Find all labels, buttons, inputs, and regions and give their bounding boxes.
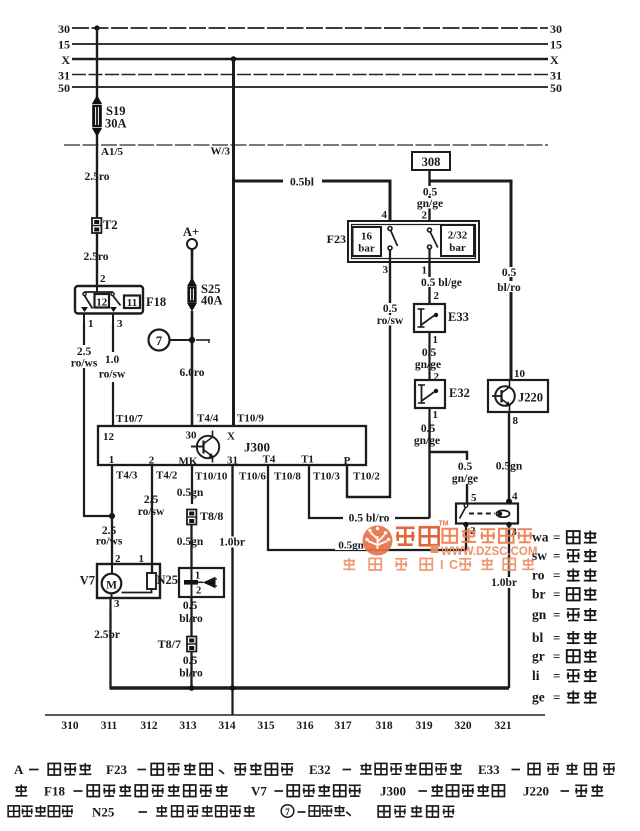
svg-text:2.5br: 2.5br — [94, 629, 120, 641]
svg-text:ro/sw: ro/sw — [377, 315, 404, 327]
svg-text:30A: 30A — [105, 117, 127, 131]
svg-text:40A: 40A — [201, 294, 223, 308]
svg-text:314: 314 — [218, 720, 236, 732]
svg-text:ro/sw: ro/sw — [138, 506, 165, 518]
svg-text:T10/10: T10/10 — [195, 471, 228, 483]
svg-text:5: 5 — [471, 492, 477, 504]
svg-text:bl/ro: bl/ro — [497, 282, 521, 294]
svg-text:30: 30 — [58, 22, 70, 36]
wire J300 T4 to relay pin2 — [268, 465, 466, 550]
bus line 30 — [72, 27, 548, 29]
wire 0.5 ro/sw F23 pin3 to J300 P — [347, 262, 390, 497]
wire F18 pin3 to J300 T10/7 — [112, 323, 114, 426]
AC clutch N25 — [179, 568, 224, 597]
svg-text:1: 1 — [109, 454, 115, 466]
svg-text:1.0br: 1.0br — [219, 537, 245, 549]
wire label 0.5 gn/ge — [417, 186, 443, 196]
svg-text:J220: J220 — [523, 784, 549, 799]
svg-text:bar: bar — [358, 243, 375, 255]
svg-text:X: X — [61, 53, 70, 67]
svg-text:2: 2 — [434, 371, 440, 383]
svg-text:1.0: 1.0 — [105, 354, 120, 366]
wire J220 pin8 to relay pin4 — [508, 412, 510, 503]
F18 pin 1 stub — [83, 314, 85, 323]
svg-text:2.5: 2.5 — [77, 346, 92, 358]
fuse S19 30A — [93, 96, 101, 104]
svg-text:0.5gn: 0.5gn — [177, 536, 204, 548]
wire splice7 to junction — [170, 339, 190, 341]
wire T8/8 to N25 — [190, 525, 192, 569]
svg-text:316: 316 — [296, 720, 314, 732]
bus line X — [72, 58, 548, 61]
V7 series resistor — [147, 573, 156, 589]
ground tick to track rail — [231, 688, 233, 715]
svg-text:2: 2 — [196, 586, 201, 597]
svg-text:T10/3: T10/3 — [313, 471, 340, 483]
svg-text:ge: ge — [532, 690, 545, 705]
F18 contact box 11 — [124, 296, 140, 309]
svg-text:7: 7 — [156, 334, 162, 348]
wire A+ to fuse S25 — [191, 249, 194, 281]
svg-text:gn/ge: gn/ge — [452, 473, 478, 485]
F23 right contact pair — [428, 228, 432, 232]
svg-text:0.5bl: 0.5bl — [290, 177, 314, 189]
svg-text:T4: T4 — [263, 454, 276, 466]
svg-text:bl/ro: bl/ro — [179, 668, 203, 680]
F18 pin 3 stub — [112, 314, 114, 323]
svg-text:2.5: 2.5 — [144, 494, 159, 506]
F23 pin1 stub — [428, 249, 430, 262]
svg-text:I C: I C — [440, 558, 459, 572]
F23 chamber 2/32 bar — [441, 225, 474, 256]
svg-text:12: 12 — [103, 431, 115, 443]
connector T2 — [92, 218, 101, 233]
svg-text:T1: T1 — [301, 454, 314, 466]
watermark url — [431, 545, 439, 553]
svg-text:F18: F18 — [44, 784, 65, 799]
svg-text:T10/7: T10/7 — [116, 413, 143, 425]
svg-text:F23: F23 — [106, 762, 127, 777]
radiator fan motor V7 — [97, 564, 160, 598]
svg-text:2/32: 2/32 — [448, 230, 468, 242]
F23 pin3 stub — [389, 250, 391, 262]
svg-text:F23: F23 — [327, 232, 346, 246]
wire label 0.5 gn/ge — [418, 347, 441, 357]
svg-text:E33: E33 — [478, 762, 500, 777]
svg-text:ro/sw: ro/sw — [99, 369, 126, 381]
wire E32 down to T1 horizontal — [428, 420, 430, 518]
svg-text:2.5ro: 2.5ro — [84, 171, 109, 183]
watermark logo circle — [343, 521, 537, 573]
F18 left switch blade — [83, 292, 86, 295]
svg-text:gr: gr — [532, 649, 545, 664]
relay bottom contacts — [463, 522, 468, 527]
svg-text:0.5gn: 0.5gn — [338, 540, 363, 552]
svg-text:317: 317 — [334, 720, 352, 732]
temperature switch E32 — [415, 380, 445, 408]
svg-text:=: = — [553, 548, 560, 563]
svg-text:30: 30 — [186, 430, 198, 442]
svg-text:0.5 bl/ge: 0.5 bl/ge — [421, 277, 462, 289]
wire label 0.5 gn/ge — [417, 423, 440, 433]
svg-text:=: = — [553, 530, 560, 545]
caption line 2 — [15, 784, 27, 796]
wire J300 T4/2 to V7 pin1 2.5 ro/sw — [151, 465, 153, 573]
wire 308 tee right to bl/ro column — [430, 181, 512, 380]
wire F23 pin1 to E33 — [428, 262, 430, 304]
wire T2 to F18 pin2 — [96, 233, 98, 286]
wire J300 MK to T8/8 — [191, 465, 193, 504]
svg-text:T4/3: T4/3 — [116, 470, 138, 482]
connector rail A1/5 W/3 — [64, 144, 548, 146]
svg-text:V7: V7 — [251, 784, 267, 799]
svg-text:X: X — [227, 431, 235, 443]
wire J300 T4/3 to V7 pin2 — [111, 465, 113, 564]
svg-text:TM: TM — [438, 521, 448, 528]
svg-text:2: 2 — [100, 273, 106, 285]
svg-text:310: 310 — [61, 720, 79, 732]
svg-text:0.5: 0.5 — [383, 303, 398, 315]
wire 0.5bl from W/3 to F23 pin4 — [234, 181, 391, 221]
svg-text:311: 311 — [101, 720, 118, 732]
svg-text:X: X — [550, 53, 559, 67]
svg-text:0.5: 0.5 — [458, 461, 473, 473]
E32 pin1 stub — [428, 408, 430, 420]
svg-text:T10/8: T10/8 — [274, 471, 301, 483]
svg-text:T4/2: T4/2 — [156, 470, 178, 482]
wire label 0.5gn — [335, 540, 367, 550]
svg-text:T2: T2 — [103, 218, 118, 232]
svg-text:15: 15 — [58, 38, 70, 52]
svg-text:J300: J300 — [380, 784, 406, 799]
svg-text:50: 50 — [550, 81, 562, 95]
svg-text:=: = — [553, 649, 560, 664]
junction dot on bus X — [231, 56, 237, 62]
svg-text:1: 1 — [88, 318, 94, 330]
svg-text:E32: E32 — [309, 762, 331, 777]
fuse S25 40A — [188, 279, 196, 286]
svg-text:=: = — [553, 630, 560, 645]
svg-text:1: 1 — [195, 571, 200, 582]
wire label 0.5 bl/ge — [421, 277, 466, 287]
F18 contact box 12 — [95, 294, 110, 308]
svg-text:321: 321 — [494, 720, 512, 732]
svg-text:li: li — [532, 668, 540, 683]
wire N25 to T8/7 — [190, 597, 192, 637]
svg-text:7: 7 — [285, 808, 290, 818]
stub right of junction — [196, 339, 209, 341]
svg-text:br: br — [532, 587, 546, 602]
V7 pin3 stub — [109, 598, 111, 610]
thermal switch F18 — [75, 286, 143, 314]
svg-text:E33: E33 — [448, 310, 469, 324]
svg-text:bl/ro: bl/ro — [179, 613, 203, 625]
svg-text:gn: gn — [532, 607, 547, 622]
svg-text:308: 308 — [422, 155, 441, 169]
svg-text:N25: N25 — [92, 805, 115, 820]
svg-text:0.5: 0.5 — [502, 267, 517, 279]
svg-text:0.5: 0.5 — [423, 187, 438, 199]
wire 308 down to F23 pin2 — [428, 170, 430, 221]
svg-text:0.5gn: 0.5gn — [496, 461, 523, 473]
svg-text:30: 30 — [550, 22, 562, 36]
svg-text:3: 3 — [117, 318, 123, 330]
svg-text:WWW.DZSC.COM: WWW.DZSC.COM — [441, 546, 537, 558]
svg-text:318: 318 — [375, 720, 393, 732]
connector T8/8 — [187, 510, 196, 525]
svg-text:gn/ge: gn/ge — [415, 359, 441, 371]
F23 chamber 16 bar — [353, 227, 382, 256]
svg-text:=: = — [553, 568, 560, 583]
svg-text:T8/7: T8/7 — [158, 637, 181, 651]
wire S25 down to J300 pin30 — [191, 311, 194, 426]
wire S19 to T2 — [96, 135, 98, 218]
svg-text:4: 4 — [512, 491, 518, 503]
svg-text:1: 1 — [422, 265, 428, 277]
svg-text:50: 50 — [58, 81, 70, 95]
ground bus — [110, 686, 510, 689]
svg-text:A+: A+ — [183, 225, 199, 239]
svg-text:1: 1 — [433, 334, 439, 346]
svg-text:W/3: W/3 — [210, 146, 230, 158]
svg-text:=: = — [553, 607, 560, 622]
F23 left contact pair — [388, 227, 392, 231]
svg-text:8: 8 — [513, 415, 519, 427]
bus line 50 — [72, 86, 548, 88]
svg-text:315: 315 — [257, 720, 275, 732]
caption line 3 — [8, 806, 19, 817]
J300 output transistor — [197, 436, 219, 458]
pressure switch F23 — [348, 221, 479, 262]
junction node 7 dot — [189, 337, 195, 343]
svg-text:2: 2 — [149, 455, 155, 467]
watermark brand text — [396, 528, 415, 545]
svg-text:A: A — [14, 762, 24, 777]
wire J300 T1 to E32 column 0.5 bl/ro — [309, 465, 430, 518]
svg-text:312: 312 — [140, 720, 158, 732]
track rail — [45, 714, 545, 716]
connector box 308 — [412, 152, 450, 170]
control unit J220 — [488, 380, 548, 412]
svg-text:ro: ro — [532, 568, 545, 583]
svg-text:319: 319 — [415, 720, 433, 732]
svg-text:T10/6: T10/6 — [239, 471, 266, 483]
svg-text:12: 12 — [96, 297, 108, 309]
svg-text:0.5 bl/ro: 0.5 bl/ro — [349, 513, 390, 525]
svg-text:J300: J300 — [244, 440, 270, 455]
svg-text:3: 3 — [114, 598, 120, 610]
junction dot T4/3 wire — [109, 513, 115, 519]
svg-text:MK: MK — [179, 456, 198, 468]
wire relay pin3 to ground bus 1.0br — [508, 525, 510, 688]
svg-text:0.5gn: 0.5gn — [177, 487, 204, 499]
svg-text:F18: F18 — [146, 295, 166, 309]
svg-text:0.5: 0.5 — [421, 423, 436, 435]
watermark slogan — [343, 558, 355, 570]
svg-text:sw: sw — [532, 548, 547, 563]
connector T8/7 — [187, 637, 196, 652]
svg-text:313: 313 — [179, 720, 197, 732]
svg-text:E32: E32 — [449, 386, 470, 400]
E33 pin1 stub — [428, 332, 430, 347]
svg-text:2.5ro: 2.5ro — [83, 251, 108, 263]
svg-text:=: = — [553, 690, 560, 705]
svg-text:gn/ge: gn/ge — [414, 435, 440, 447]
svg-text:=: = — [553, 587, 560, 602]
wire tee to relay pin5 — [430, 452, 468, 460]
svg-text:M: M — [106, 580, 117, 592]
svg-text:ro/ws: ro/ws — [96, 536, 123, 548]
svg-text:bl: bl — [532, 630, 544, 645]
svg-text:320: 320 — [454, 720, 472, 732]
svg-text:T4/4: T4/4 — [197, 413, 219, 425]
F18 top bar — [84, 291, 113, 293]
svg-text:ro/ws: ro/ws — [71, 358, 98, 370]
svg-text:J220: J220 — [518, 391, 543, 405]
svg-text:0.5: 0.5 — [183, 655, 198, 667]
svg-text:11: 11 — [127, 297, 137, 309]
svg-text:1: 1 — [433, 409, 439, 421]
svg-text:10: 10 — [514, 368, 526, 380]
svg-text:2: 2 — [434, 290, 440, 302]
wire label 0.5 bl/ro right column — [498, 267, 520, 277]
svg-text:16: 16 — [361, 231, 373, 243]
splice 7 circle — [149, 330, 170, 351]
svg-text:6.0ro: 6.0ro — [179, 367, 204, 379]
svg-text:T8/8: T8/8 — [200, 509, 223, 523]
svg-text:A1/5: A1/5 — [101, 146, 124, 158]
junction dot on bus 30 — [94, 25, 99, 30]
bus line 15 — [72, 43, 548, 45]
wire J300 31 to ground bus 1.0br — [231, 465, 233, 688]
svg-text:T10/2: T10/2 — [353, 471, 380, 483]
wire bus30 to fuse S19 — [96, 28, 98, 99]
svg-text:wa: wa — [532, 530, 549, 545]
svg-text:gn/ge: gn/ge — [417, 198, 443, 210]
wire T8/7 to ground bus — [190, 652, 192, 689]
svg-text:1.0br: 1.0br — [491, 577, 517, 589]
svg-text:3: 3 — [383, 264, 389, 276]
wire W/3 bus X to J300 T10/9 — [232, 59, 235, 426]
svg-text:15: 15 — [550, 38, 562, 52]
temperature switch E33 — [414, 304, 445, 332]
svg-text:0.5: 0.5 — [183, 600, 198, 612]
wire F18 pin1 down and right to T4/3 node — [84, 323, 112, 516]
J300 bottom pin stubs — [111, 465, 113, 481]
svg-text:=: = — [553, 668, 560, 683]
svg-text:V7: V7 — [80, 574, 95, 588]
switch unit pins 5/4/2/3 — [456, 504, 518, 524]
wire E33 to E32 — [428, 347, 430, 380]
svg-text:bar: bar — [449, 242, 466, 254]
svg-text:4: 4 — [382, 209, 388, 221]
F18 right switch blade — [111, 292, 114, 295]
svg-text:2: 2 — [422, 210, 428, 222]
junction dot relay pin4 — [506, 499, 512, 505]
wire V7 pin3 to ground bus 2.5br — [109, 610, 111, 688]
bus line 31 — [72, 74, 548, 76]
fan controller J300 — [98, 426, 366, 465]
svg-text:31: 31 — [227, 455, 238, 467]
svg-text:T10/9: T10/9 — [237, 413, 264, 425]
splice symbol circled 7 — [281, 805, 294, 818]
